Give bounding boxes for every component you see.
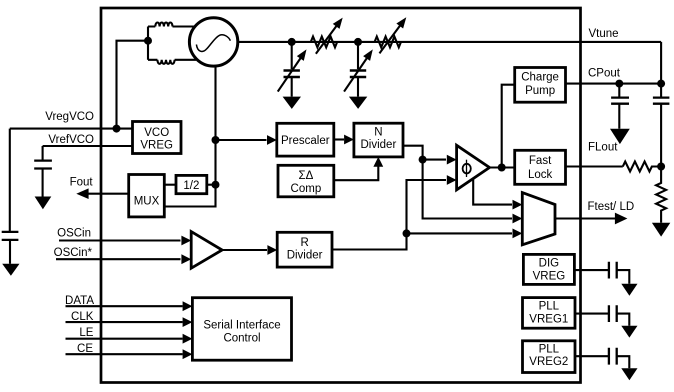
- node VregVCO junction: [113, 125, 121, 133]
- capacitor (varactor) C1: [291, 42, 293, 69]
- wire VCO output to Vtune corner: [238, 41, 661, 43]
- svg-text:Divider: Divider: [287, 250, 323, 262]
- ground arrow DIG VREG: [621, 284, 637, 296]
- wire DATA: [66, 305, 183, 307]
- wire VregVCO line: [10, 128, 133, 130]
- svg-text:VREG: VREG: [533, 271, 566, 283]
- svg-text:Control: Control: [223, 332, 260, 344]
- N Divider box: [354, 123, 403, 157]
- wire tank left vertical with taps: [147, 27, 149, 60]
- wire tank top segment: [148, 25, 196, 27]
- node tuning line junction 2: [354, 38, 362, 46]
- capacitor PLL VREG1 bypass: [609, 305, 617, 322]
- wire CPout: [566, 83, 662, 85]
- svg-text:Lock: Lock: [528, 169, 553, 181]
- ground arrow VregVCO cap: [2, 264, 19, 276]
- node main vertical at prescaler: [212, 136, 220, 144]
- wire tank to VregVCO line: [117, 41, 149, 129]
- ground arrow below resistor: [652, 223, 670, 237]
- PLL VREG1 box: [523, 298, 576, 329]
- svg-text:Fast: Fast: [529, 155, 552, 167]
- svg-text:OSCin*: OSCin*: [54, 247, 93, 259]
- svg-text:Prescaler: Prescaler: [281, 135, 330, 147]
- svg-text:LE: LE: [79, 327, 93, 339]
- wire cap B down to FLout: [660, 104, 662, 167]
- inductor L1 (top coil): [155, 22, 172, 26]
- capacitor CPout A: [618, 84, 620, 98]
- ground arrow CPout cap A: [610, 129, 630, 144]
- wire buffer to R Divider: [222, 249, 267, 251]
- wire tap to mux input 3: [407, 232, 513, 234]
- node FLout at vertical: [657, 163, 665, 171]
- Prescaler box: [277, 123, 334, 156]
- wire R Divider output to phase detector input 2: [332, 180, 446, 250]
- wire N Divider output to mux input 2: [403, 146, 512, 219]
- node R divider output tap: [403, 229, 411, 237]
- mux Ftest trapezoid: [522, 193, 555, 245]
- wire OSCin*: [56, 258, 181, 260]
- wire 1/2 to main vertical: [207, 184, 216, 186]
- R Divider box: [277, 232, 332, 267]
- phi symbol: [463, 164, 471, 174]
- svg-text:VregVCO: VregVCO: [45, 111, 94, 123]
- wire VregVCO down to external cap: [9, 129, 11, 232]
- svg-text:PLL: PLL: [539, 301, 560, 313]
- wire tap to phase detector input 1: [423, 159, 446, 161]
- svg-text:DIG: DIG: [539, 258, 560, 270]
- outer chip boundary box: [101, 8, 581, 383]
- wire phase detector bottom tap to mux input 1: [473, 179, 512, 205]
- PLL VREG2 box: [523, 341, 576, 373]
- node CPout at Vtune vertical: [657, 80, 665, 88]
- wire Prescaler to N Divider: [334, 138, 344, 140]
- resistor (variable) R tune 1: [311, 37, 337, 48]
- svg-text:ΣΔ: ΣΔ: [299, 170, 314, 182]
- wire CE: [66, 353, 183, 355]
- divider 1/2 box: [176, 175, 207, 193]
- op-amp phase detector triangle: [457, 145, 490, 190]
- wire PLL VREG1 bypass: [575, 313, 609, 315]
- svg-text:Serial Interface: Serial Interface: [203, 319, 280, 331]
- wire to Prescaler: [216, 139, 267, 141]
- VCO VREG box: [133, 122, 182, 154]
- capacitor (varactor) C2: [357, 42, 359, 69]
- wire Vtune drop to CPout line: [660, 42, 662, 98]
- resistor to ground vertical: [656, 167, 666, 223]
- node tank junction: [144, 37, 152, 45]
- ground arrow PLL VREG1: [621, 326, 637, 338]
- wire VrefVCO line: [43, 145, 133, 147]
- sine wave symbol: [196, 35, 230, 52]
- wire sigma-delta to N Divider: [334, 166, 379, 180]
- svg-text:VCO: VCO: [144, 127, 169, 139]
- wire DIG VREG bypass: [574, 269, 609, 271]
- node tuning line junction 1: [288, 38, 296, 46]
- node CPout cap A: [615, 80, 623, 88]
- ground arrow under C1: [283, 97, 301, 109]
- svg-text:Pump: Pump: [525, 85, 555, 97]
- capacitor PLL VREG2 bypass: [609, 348, 617, 365]
- svg-text:Ftest/ LD: Ftest/ LD: [588, 201, 635, 213]
- capacitor external on VregVCO: [2, 232, 19, 240]
- capacitor CPout B: [653, 98, 670, 104]
- wire MUX to 1/2: [164, 184, 176, 186]
- svg-text:PLL: PLL: [539, 343, 560, 355]
- wire Fout output arrow: [87, 193, 129, 195]
- resistor (variable) R tune 2: [375, 37, 401, 48]
- svg-text:VrefVCO: VrefVCO: [48, 134, 94, 146]
- svg-text:Fout: Fout: [70, 176, 94, 188]
- wire PLL VREG2 bypass: [575, 355, 609, 357]
- svg-text:VREG1: VREG1: [529, 313, 568, 325]
- svg-text:Vtune: Vtune: [589, 28, 619, 40]
- Serial Interface Control box: [192, 298, 291, 361]
- wire charge pump connection: [502, 85, 515, 168]
- svg-text:VREG: VREG: [140, 140, 173, 152]
- wire FLout: [566, 165, 623, 167]
- sigma-delta Comp box: [278, 165, 334, 197]
- svg-text:1/2: 1/2: [183, 180, 199, 192]
- node N divider output tap: [419, 156, 427, 164]
- oscillator VCO circle: [189, 18, 237, 66]
- svg-text:Charge: Charge: [521, 72, 559, 84]
- capacitor external on VrefVCO: [42, 146, 44, 161]
- wire VCO main vertical: [164, 66, 215, 207]
- Charge Pump box: [515, 68, 566, 103]
- ground arrow PLL VREG2: [621, 368, 637, 380]
- svg-text:Divider: Divider: [361, 139, 397, 151]
- ground arrow under C2: [349, 97, 367, 109]
- DIG VREG box: [523, 254, 574, 284]
- node main vertical at 1/2: [212, 181, 220, 189]
- svg-text:CPout: CPout: [588, 67, 621, 79]
- wire OSCin: [59, 239, 181, 241]
- wire Ftest output arrow: [555, 217, 615, 219]
- resistor FLout series: [623, 162, 661, 172]
- svg-text:FLout: FLout: [588, 142, 618, 154]
- wire LE: [66, 338, 183, 340]
- inductor L2 (bottom coil): [157, 60, 174, 64]
- svg-text:N: N: [374, 127, 382, 139]
- node phase detector output: [498, 164, 506, 172]
- Fast Lock box: [515, 150, 566, 184]
- svg-text:MUX: MUX: [134, 196, 160, 208]
- wire tank bottom segment: [148, 59, 196, 61]
- svg-text:VREG2: VREG2: [529, 356, 568, 368]
- capacitor DIG VREG bypass: [609, 262, 617, 279]
- svg-text:OSCin: OSCin: [57, 228, 91, 240]
- wire phase detector output: [490, 166, 515, 168]
- svg-text:R: R: [300, 237, 308, 249]
- MUX box U-mux: [129, 175, 165, 217]
- ground arrow VrefVCO cap: [35, 197, 52, 210]
- wire CLK: [66, 321, 183, 323]
- svg-text:Comp: Comp: [291, 183, 322, 195]
- OSCin buffer triangle: [191, 232, 222, 269]
